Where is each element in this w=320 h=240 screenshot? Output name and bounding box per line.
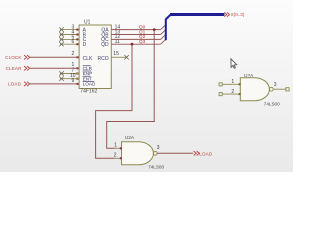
no-connect X marks on pins 3,4,5,6 xyxy=(59,27,63,46)
svg-text:U?A: U?A xyxy=(244,73,254,79)
svg-text:D: D xyxy=(83,42,87,48)
U2A input pin stubs xyxy=(115,148,122,158)
off-page connector CLOCK xyxy=(5,55,30,60)
off-page connector LOAD xyxy=(8,82,30,87)
svg-text:2: 2 xyxy=(114,153,117,159)
svg-text:74LS00: 74LS00 xyxy=(148,165,164,170)
bus X(0..3) xyxy=(166,14,224,40)
svg-text:3: 3 xyxy=(274,82,277,88)
svg-text:74LS00: 74LS00 xyxy=(264,101,280,106)
wire QA net Q0 xyxy=(111,29,160,31)
wire QC net Q2 xyxy=(111,38,160,40)
wire QB net Q1 xyxy=(111,34,160,36)
pin numbers 14 13 12 11 xyxy=(115,24,121,45)
mouse cursor xyxy=(231,59,237,68)
svg-text:CLK: CLK xyxy=(83,56,93,62)
off-page connector LOAD (output) xyxy=(194,151,213,156)
U1 left pin stubs pins 3,4,5,6 xyxy=(60,30,79,45)
svg-text:QD: QD xyxy=(101,42,109,48)
pin numbers 3 4 5 6 xyxy=(72,25,75,46)
U2A pin numbers xyxy=(114,143,160,159)
svg-text:LOAD: LOAD xyxy=(83,82,96,87)
ENP ENT stubs pins 7,10 xyxy=(60,74,79,79)
junction dot on Q0 xyxy=(153,28,156,31)
pin-base dots on U?A pins xyxy=(239,83,241,95)
RCO pin 15 stub xyxy=(111,56,126,58)
U1 pin names CLR ENP ENT LOAD with overbars xyxy=(83,66,96,87)
wire QD net Q3 xyxy=(111,43,160,45)
svg-text:X(0..3): X(0..3) xyxy=(231,12,245,17)
wire CLOCK to pin 2 xyxy=(30,56,79,58)
wire Q0 branch to U2A pin 1 xyxy=(107,30,155,149)
U?A input pin stubs with loose-end boxes xyxy=(219,83,240,96)
off-page connector X(0..3) xyxy=(224,12,245,17)
junction dot on Q3 xyxy=(131,43,134,46)
svg-text:6: 6 xyxy=(72,39,75,45)
svg-text:15: 15 xyxy=(113,51,119,57)
svg-text:Q3: Q3 xyxy=(139,39,146,45)
pin-base dots on U2A pins xyxy=(120,147,122,159)
svg-text:CLEAR: CLEAR xyxy=(6,66,22,71)
svg-text:CLOCK: CLOCK xyxy=(5,55,22,60)
svg-text:LOAD: LOAD xyxy=(199,151,212,156)
U?A pin numbers xyxy=(231,79,276,95)
wire LOAD to pin 9 xyxy=(30,83,79,85)
IC U1 74F162 body xyxy=(79,25,111,89)
svg-text:U1: U1 xyxy=(84,19,91,25)
svg-text:1: 1 xyxy=(231,79,234,85)
svg-text:74F162: 74F162 xyxy=(80,89,97,95)
wire CLEAR to pin 1 xyxy=(30,67,79,69)
pin numbers 2 1 7 10 9 xyxy=(70,51,76,84)
pin-base dots on U1 left pins xyxy=(76,29,78,85)
U?A output stub with loose-end box xyxy=(273,88,289,91)
wire U2A output to LOAD xyxy=(157,152,193,154)
no-connect X on pin 15 xyxy=(124,55,128,59)
U1 right pin names QA QB QC QD RCO xyxy=(97,27,109,62)
off-page connector CLEAR xyxy=(6,66,30,71)
svg-text:2: 2 xyxy=(231,89,234,95)
svg-text:3: 3 xyxy=(157,145,160,151)
svg-text:2: 2 xyxy=(72,51,75,57)
bus entries xyxy=(161,25,166,45)
svg-text:LOAD: LOAD xyxy=(8,82,21,87)
wire Q3 branch to U2A pin 2 xyxy=(96,44,132,158)
floating NAND gate U?A body xyxy=(240,78,273,101)
svg-text:U2A: U2A xyxy=(125,135,135,141)
NAND gate U2A body xyxy=(122,142,158,165)
svg-text:RCO: RCO xyxy=(97,56,108,62)
svg-text:9: 9 xyxy=(72,78,75,84)
no-connect X marks pins 7,10 xyxy=(59,71,63,81)
U1 left pin names A B C D xyxy=(83,27,87,48)
svg-text:1: 1 xyxy=(114,143,117,149)
